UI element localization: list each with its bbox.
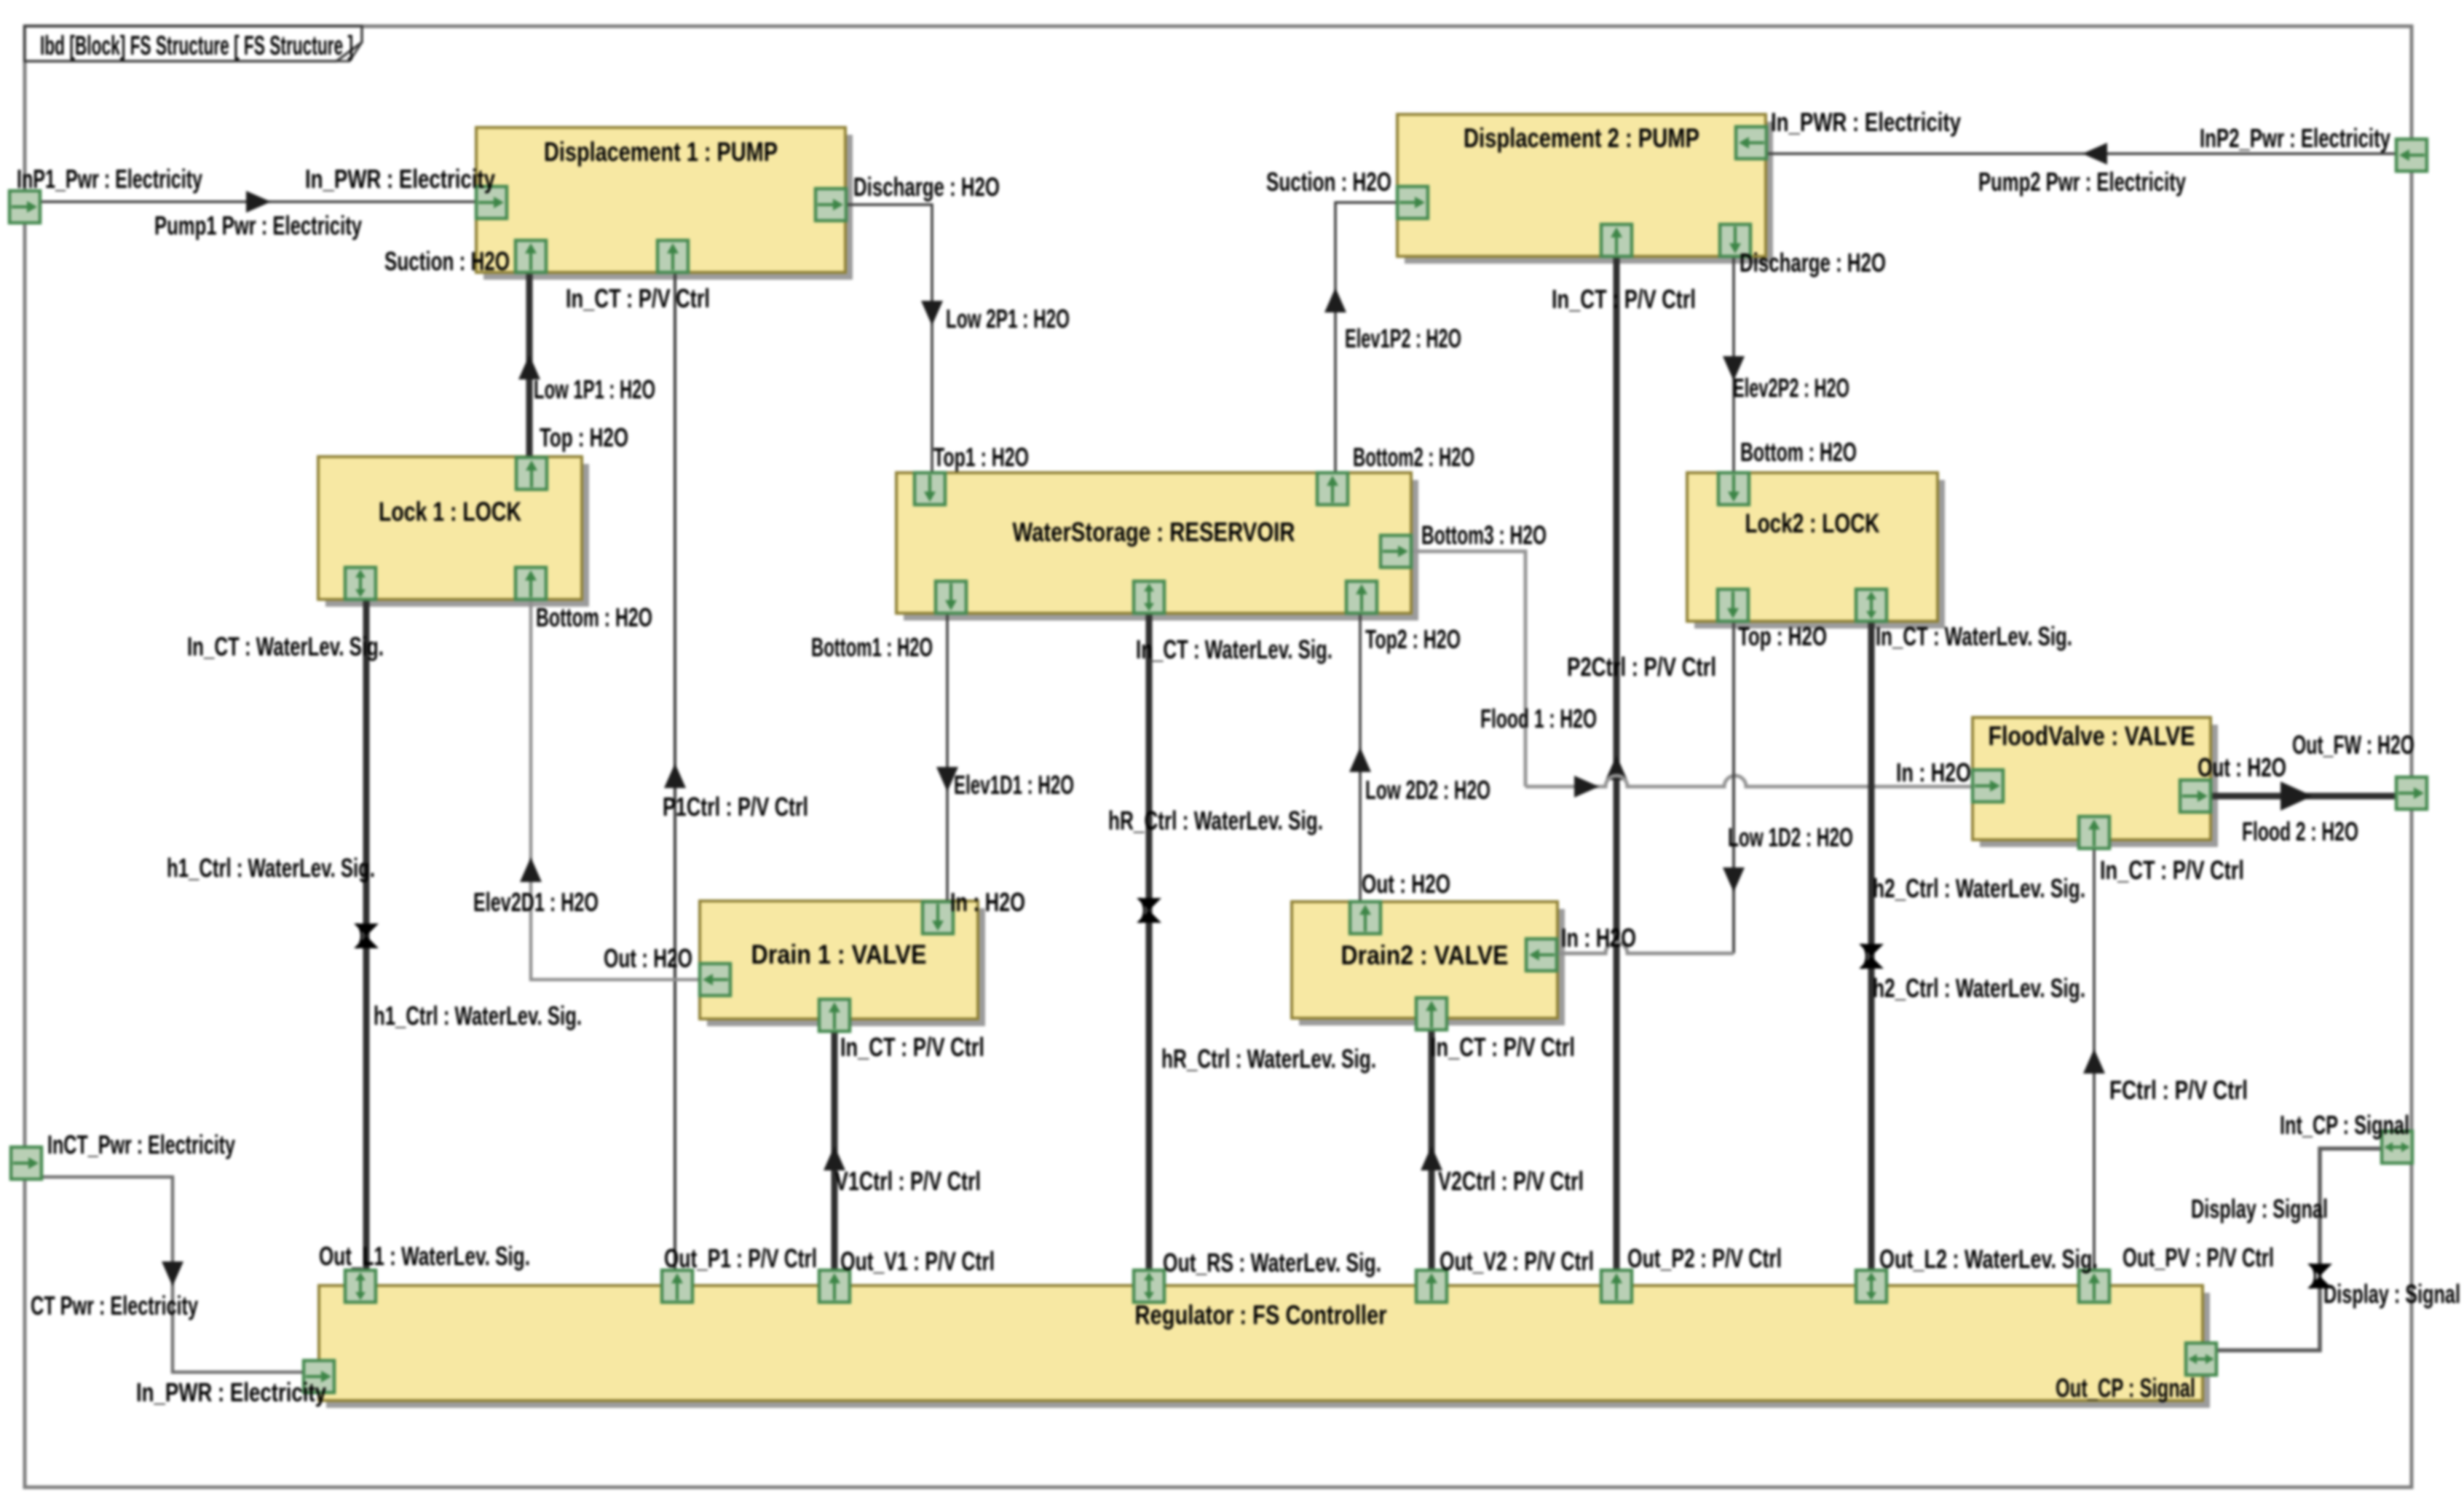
arrowhead Elev1P2 flow xyxy=(1324,288,1346,312)
svg-text:Out_FW : H2O: Out_FW : H2O xyxy=(2292,730,2414,760)
svg-text:Lock 1 : LOCK: Lock 1 : LOCK xyxy=(379,497,521,527)
svg-text:Top1 : H2O: Top1 : H2O xyxy=(933,442,1029,472)
block Drain2 VALVE xyxy=(1292,902,1565,1025)
svg-text:In : H2O: In : H2O xyxy=(1561,923,1636,953)
svg-text:Flood 1 : H2O: Flood 1 : H2O xyxy=(1480,704,1597,733)
port Pump2 In_PWR xyxy=(1736,127,1766,159)
svg-text:InP1_Pwr : Electricity: InP1_Pwr : Electricity xyxy=(17,164,202,194)
wire Elev1P2 / Suction2 (Suction2 to Bottom2) xyxy=(1335,202,1397,473)
svg-text:h2_Ctrl : WaterLev. Sig.: h2_Ctrl : WaterLev. Sig. xyxy=(1873,873,2085,903)
svg-text:Elev1D1 : H2O: Elev1D1 : H2O xyxy=(954,770,1074,800)
svg-text:Bottom3 : H2O: Bottom3 : H2O xyxy=(1421,520,1547,550)
port FloodValve In xyxy=(1973,770,2003,802)
svg-text:h2_Ctrl : WaterLev. Sig.: h2_Ctrl : WaterLev. Sig. xyxy=(1873,973,2085,1003)
svg-text:Regulator : FS Controller: Regulator : FS Controller xyxy=(1135,1300,1387,1330)
svg-text:In : H2O: In : H2O xyxy=(1896,757,1971,787)
svg-text:Top : H2O: Top : H2O xyxy=(540,422,628,452)
svg-text:Displacement 1 : PUMP: Displacement 1 : PUMP xyxy=(544,137,778,167)
wire h1_Ctrl (Lock1 In_CT to Out_L1) xyxy=(363,599,370,1270)
port Drain1 In xyxy=(923,902,953,934)
wire Flood 1 vertical leg xyxy=(1411,551,1525,787)
port Drain2 In_CT xyxy=(1416,998,1447,1030)
svg-text:Display : Signal: Display : Signal xyxy=(2323,1279,2460,1309)
port Lock2 Top xyxy=(1718,589,1748,621)
block Drain1 VALVE xyxy=(700,901,985,1026)
svg-text:Discharge : H2O: Discharge : H2O xyxy=(853,172,1000,202)
svg-text:In : H2O: In : H2O xyxy=(950,887,1025,917)
svg-text:Drain 1 : VALVE: Drain 1 : VALVE xyxy=(751,940,927,969)
item-flow marker h1_Ctrl crossing xyxy=(354,924,379,948)
arrowhead Pump1 Pwr flow xyxy=(246,191,271,213)
port Regulator Out_L1 xyxy=(345,1270,376,1302)
svg-text:h1_Ctrl : WaterLev. Sig.: h1_Ctrl : WaterLev. Sig. xyxy=(167,853,375,883)
port Lock2 In_CT xyxy=(1856,589,1887,621)
svg-text:V2Ctrl : P/V Ctrl: V2Ctrl : P/V Ctrl xyxy=(1438,1166,1584,1196)
svg-text:Out_L1 : WaterLev. Sig.: Out_L1 : WaterLev. Sig. xyxy=(319,1241,530,1271)
svg-text:Low 2D2 : H2O: Low 2D2 : H2O xyxy=(1365,775,1490,805)
svg-text:Pump1 Pwr : Electricity: Pump1 Pwr : Electricity xyxy=(154,210,362,240)
svg-text:In_CT : WaterLev. Sig.: In_CT : WaterLev. Sig. xyxy=(187,631,384,661)
port frame InCT_Pwr xyxy=(11,1147,42,1179)
svg-text:Displacement 2 : PUMP: Displacement 2 : PUMP xyxy=(1464,123,1699,153)
wire V2Ctrl (Drain2 In_CT to Out_V2) xyxy=(1429,1018,1435,1270)
port frame InP2_Pwr xyxy=(2396,139,2427,171)
block Displacement2 PUMP xyxy=(1397,114,1773,264)
svg-text:Out : H2O: Out : H2O xyxy=(1362,869,1450,899)
block WaterStorage RESERVOIR xyxy=(896,473,1418,621)
svg-text:In_CT : P/V Ctrl: In_CT : P/V Ctrl xyxy=(840,1032,984,1062)
arrowhead P1Ctrl flow xyxy=(664,763,686,788)
item-flow marker Display crossing xyxy=(2307,1264,2332,1288)
port Pump2 Discharge xyxy=(1720,224,1750,256)
wire Low 2D2 / Out (Drain2 Out to Top2) xyxy=(1359,613,1362,902)
wire Low 1P1 / Top (Suction1 to Lock1 Top) xyxy=(526,272,533,457)
arrowhead V1Ctrl flow xyxy=(824,1146,845,1170)
wire FCtrl (FloodValve In_CT to Out_PV) xyxy=(2093,849,2096,1270)
svg-text:InCT_Pwr : Electricity: InCT_Pwr : Electricity xyxy=(47,1130,235,1159)
port Lock2 Bottom xyxy=(1718,473,1749,505)
svg-text:Elev2D1 : H2O: Elev2D1 : H2O xyxy=(473,887,599,917)
svg-text:Low 2P1 : H2O: Low 2P1 : H2O xyxy=(946,304,1070,334)
svg-text:In_CT : P/V Ctrl: In_CT : P/V Ctrl xyxy=(1431,1032,1575,1062)
port Pump1 In_CT xyxy=(658,240,688,272)
wire Pump1 Pwr (InP1_Pwr to In_PWR) xyxy=(40,200,476,203)
port Regulator Out_V1 xyxy=(819,1270,850,1302)
frame title tab xyxy=(25,26,362,61)
svg-text:Out_P1 : P/V Ctrl: Out_P1 : P/V Ctrl xyxy=(664,1243,817,1273)
svg-text:Lock2 : LOCK: Lock2 : LOCK xyxy=(1745,508,1880,538)
svg-text:Out : H2O: Out : H2O xyxy=(604,943,692,973)
port Drain1 In_CT xyxy=(819,999,850,1031)
arrowhead Flood 1 flow xyxy=(1574,776,1599,798)
port Pump1 In_PWR xyxy=(476,186,507,218)
svg-text:Elev2P2 : H2O: Elev2P2 : H2O xyxy=(1733,373,1849,403)
svg-text:Int_CP : Signal: Int_CP : Signal xyxy=(2280,1110,2409,1140)
wire Elev2P2 / Bottom (Discharge2 to Lock2 Bottom) xyxy=(1732,256,1735,473)
svg-text:Bottom1 : H2O: Bottom1 : H2O xyxy=(811,632,933,662)
svg-text:hR_Ctrl : WaterLev. Sig.: hR_Ctrl : WaterLev. Sig. xyxy=(1161,1044,1376,1074)
block Displacement1 PUMP xyxy=(476,127,853,280)
svg-text:Display : Signal: Display : Signal xyxy=(2191,1194,2328,1224)
svg-text:Out_L2 : WaterLev. Sig.: Out_L2 : WaterLev. Sig. xyxy=(1879,1244,2098,1274)
arrowhead Low 1P1 flow xyxy=(518,355,540,379)
svg-text:Suction : H2O: Suction : H2O xyxy=(1266,167,1391,197)
svg-text:Flood 2 : H2O: Flood 2 : H2O xyxy=(2242,816,2358,846)
wire P1Ctrl (Pump1 In_CT to Out_P1) xyxy=(674,272,676,1270)
arrowhead FCtrl flow xyxy=(2083,1049,2105,1074)
arrowhead Low 1D2 flow xyxy=(1723,867,1745,892)
svg-text:Bottom2 : H2O: Bottom2 : H2O xyxy=(1353,442,1474,472)
svg-text:In_CT : WaterLev. Sig.: In_CT : WaterLev. Sig. xyxy=(1136,634,1332,664)
svg-text:WaterStorage : RESERVOIR: WaterStorage : RESERVOIR xyxy=(1013,517,1295,547)
wire hR_Ctrl (Reservoir In_CT to Out_RS) xyxy=(1146,613,1153,1270)
svg-text:Discharge : H2O: Discharge : H2O xyxy=(1740,248,1886,277)
port Regulator Out_PV xyxy=(2079,1270,2109,1302)
svg-text:CT Pwr : Electricity: CT Pwr : Electricity xyxy=(31,1291,198,1320)
wire Display (Out_CP to Int_CP) xyxy=(2218,1149,2382,1350)
svg-text:In_CT : P/V Ctrl: In_CT : P/V Ctrl xyxy=(1552,284,1696,314)
block Lock2 LOCK xyxy=(1687,473,1945,629)
arrowhead V2Ctrl flow xyxy=(1421,1146,1442,1170)
arrowhead CT Pwr flow xyxy=(162,1261,183,1286)
svg-text:Suction : H2O: Suction : H2O xyxy=(384,246,510,276)
svg-text:V1Ctrl : P/V Ctrl: V1Ctrl : P/V Ctrl xyxy=(835,1166,981,1196)
svg-text:Out_PV : P/V Ctrl: Out_PV : P/V Ctrl xyxy=(2123,1243,2274,1272)
arrowhead Pump2 Pwr flow xyxy=(2082,143,2107,165)
port Reservoir Top2 xyxy=(1346,581,1377,613)
svg-text:Out_P2 : P/V Ctrl: Out_P2 : P/V Ctrl xyxy=(1627,1243,1782,1273)
svg-text:In_PWR : Electricity: In_PWR : Electricity xyxy=(136,1377,326,1407)
arrowhead Elev1D1 flow xyxy=(936,767,958,792)
port frame InP1_Pwr xyxy=(9,191,40,223)
port Regulator Out_CP xyxy=(2186,1343,2216,1375)
wire Elev1D1 / In (Bottom1 to Drain1 In) xyxy=(946,613,949,901)
port Reservoir Bottom3 xyxy=(1381,535,1411,567)
svg-text:hR_Ctrl : WaterLev. Sig.: hR_Ctrl : WaterLev. Sig. xyxy=(1108,806,1323,835)
svg-text:h1_Ctrl : WaterLev. Sig.: h1_Ctrl : WaterLev. Sig. xyxy=(374,1001,582,1031)
port FloodValve In_CT xyxy=(2079,816,2109,848)
wire Low 2P1 (Discharge1 to Top1) xyxy=(845,205,932,473)
port Regulator Out_L2 xyxy=(1856,1270,1887,1302)
svg-text:P2Ctrl : P/V Ctrl: P2Ctrl : P/V Ctrl xyxy=(1567,652,1716,682)
svg-text:In_CT : WaterLev. Sig.: In_CT : WaterLev. Sig. xyxy=(1876,621,2072,651)
item-flow marker h2_Ctrl crossing xyxy=(1859,944,1884,969)
svg-text:Out_V2 : P/V Ctrl: Out_V2 : P/V Ctrl xyxy=(1440,1246,1594,1276)
svg-text:In_CT : P/V Ctrl: In_CT : P/V Ctrl xyxy=(566,283,710,313)
port Regulator Out_RS xyxy=(1134,1270,1164,1302)
port Lock1 In_CT xyxy=(345,567,376,599)
wire Flood 1 (Bottom3 to FloodValve In) horizontal xyxy=(1525,776,1973,787)
port Pump2 In_CT xyxy=(1601,224,1632,256)
svg-text:Out : H2O: Out : H2O xyxy=(2198,752,2286,782)
svg-text:InP2_Pwr : Electricity: InP2_Pwr : Electricity xyxy=(2200,123,2390,153)
svg-text:Low 1D2 : H2O: Low 1D2 : H2O xyxy=(1728,822,1853,852)
port Pump1 Discharge xyxy=(816,189,846,221)
wire P2Ctrl (Pump2 In_CT to Out_P2) xyxy=(1614,256,1620,1270)
svg-text:Out_CP : Signal: Out_CP : Signal xyxy=(2056,1373,2195,1403)
block Lock1 LOCK xyxy=(318,457,589,607)
wire Elev2D1 / Out (Lock1 Bottom to Drain1 Out) xyxy=(531,599,700,980)
svg-text:Low 1P1 : H2O: Low 1P1 : H2O xyxy=(534,374,655,404)
svg-text:Out_V1 : P/V Ctrl: Out_V1 : P/V Ctrl xyxy=(840,1246,995,1276)
port frame Int_CP xyxy=(2382,1131,2412,1163)
svg-text:Out_RS : WaterLev. Sig.: Out_RS : WaterLev. Sig. xyxy=(1163,1248,1381,1277)
svg-text:P1Ctrl : P/V Ctrl: P1Ctrl : P/V Ctrl xyxy=(663,792,808,822)
port Drain2 Out xyxy=(1350,902,1381,934)
wire In (to Drain2 In) horizontal xyxy=(1557,942,1734,953)
arrowhead Low 2D2 flow xyxy=(1349,747,1371,772)
port Reservoir Bottom2 xyxy=(1317,473,1348,505)
svg-text:Pump2 Pwr : Electricity: Pump2 Pwr : Electricity xyxy=(1978,167,2186,197)
port Reservoir Top1 xyxy=(915,473,945,505)
arrowhead Elev2D1 flow xyxy=(520,857,542,882)
svg-text:Top2 : H2O: Top2 : H2O xyxy=(1365,624,1461,654)
port Lock1 Bottom xyxy=(516,567,546,599)
svg-text:Drain2 : VALVE: Drain2 : VALVE xyxy=(1341,940,1509,970)
port Pump1 Suction xyxy=(516,240,546,272)
arrowhead Elev2P2 flow xyxy=(1723,356,1745,381)
port Regulator Out_P1 xyxy=(662,1270,692,1302)
svg-text:In_CT : P/V Ctrl: In_CT : P/V Ctrl xyxy=(2100,855,2244,885)
port Regulator Out_P2 xyxy=(1601,1270,1632,1302)
arrowhead Flood 2 flow xyxy=(2281,781,2313,811)
port Drain2 In xyxy=(1526,939,1557,971)
port FloodValve Out xyxy=(2180,780,2211,812)
wire h2_Ctrl (Lock2 In_CT to Out_L2) xyxy=(1868,621,1875,1270)
port Pump2 Suction xyxy=(1397,186,1428,218)
port Reservoir In_CT xyxy=(1134,581,1164,613)
svg-text:FCtrl : P/V Ctrl: FCtrl : P/V Ctrl xyxy=(2109,1075,2248,1105)
wire V1Ctrl (Drain1 In_CT to Out_V1) xyxy=(832,1019,838,1270)
svg-text:Ibd [Block] FS Structure [ FS: Ibd [Block] FS Structure [ FS Structure … xyxy=(40,31,353,60)
svg-text:Bottom : H2O: Bottom : H2O xyxy=(1740,437,1857,467)
item-flow marker hR_Ctrl crossing xyxy=(1137,898,1161,923)
wire Pump2 Pwr (InP2_Pwr to In_PWR2) xyxy=(1766,152,2396,155)
port Lock1 Top xyxy=(516,457,547,489)
svg-text:In_PWR : Electricity: In_PWR : Electricity xyxy=(305,164,495,194)
svg-text:Bottom : H2O: Bottom : H2O xyxy=(536,602,652,632)
arrowhead Low 2P1 flow xyxy=(921,301,943,326)
port Regulator Out_V2 xyxy=(1416,1270,1447,1302)
port Reservoir Bottom1 xyxy=(936,581,966,613)
port Drain1 Out xyxy=(700,964,730,996)
svg-text:Elev1P2 : H2O: Elev1P2 : H2O xyxy=(1345,323,1461,353)
block Regulator FS Controller xyxy=(319,1285,2210,1408)
svg-text:Top : H2O: Top : H2O xyxy=(1738,621,1827,651)
wire Out_FW / Flood 2 (FloodValve Out to frame) xyxy=(2211,793,2396,800)
svg-text:FloodValve : VALVE: FloodValve : VALVE xyxy=(1989,721,2195,751)
port frame Out_FW xyxy=(2396,777,2427,809)
svg-text:In_PWR : Electricity: In_PWR : Electricity xyxy=(1771,107,1961,137)
block FloodValve VALVE xyxy=(1973,717,2218,847)
arrowhead P2Ctrl flow xyxy=(1606,755,1627,780)
wire CT Pwr (InCT_Pwr to Regulator In_PWR) xyxy=(41,1177,304,1372)
wire Low 1D2 / Top (Lock2 Top down) xyxy=(1732,621,1735,953)
port Regulator In_PWR xyxy=(304,1361,334,1393)
